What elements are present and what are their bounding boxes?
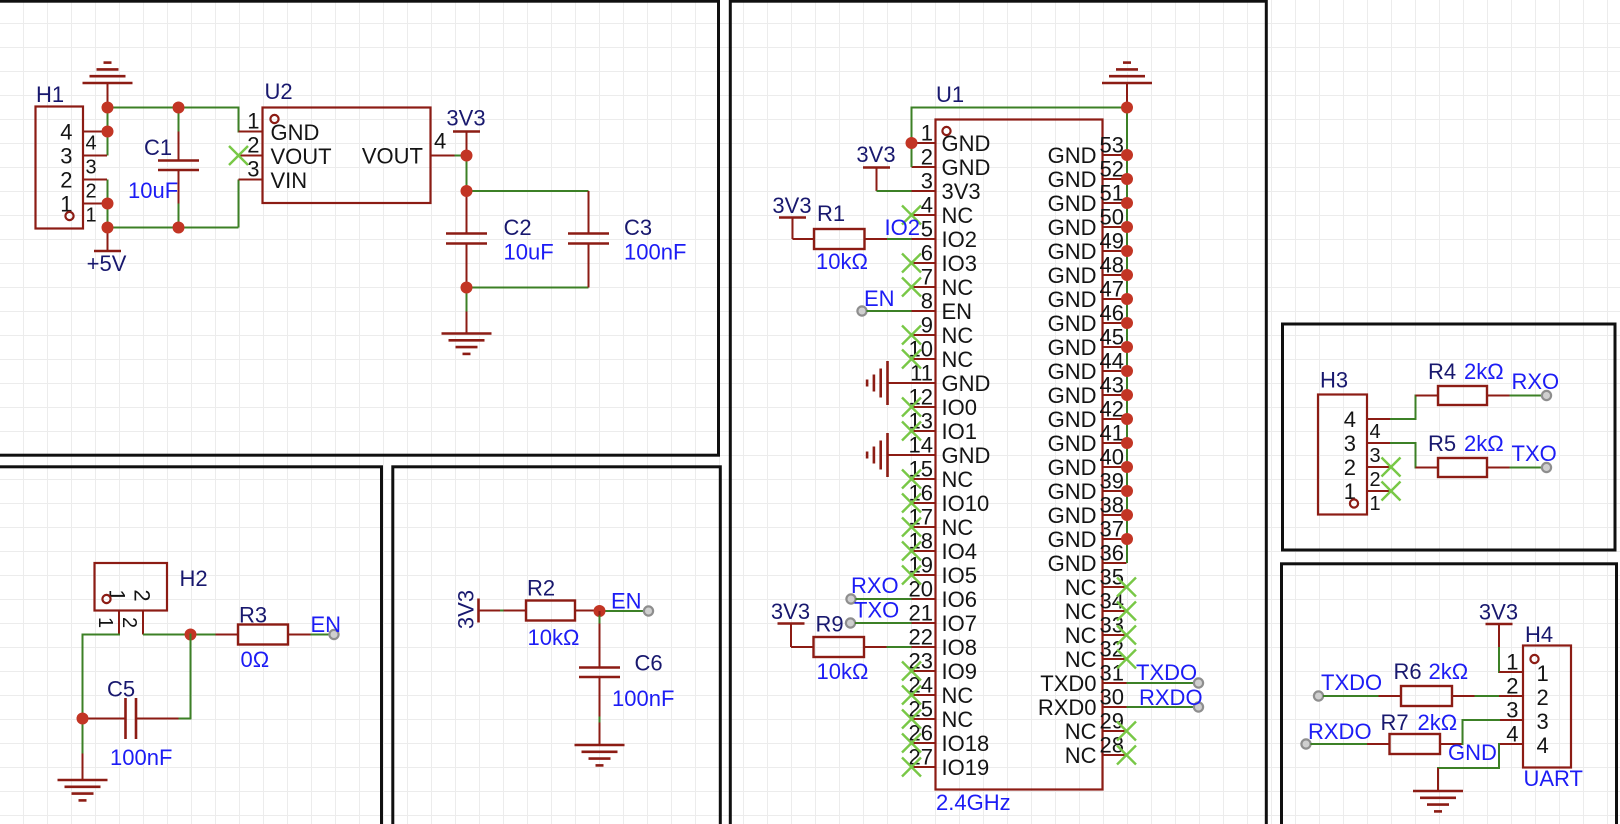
- svg-text:IO2: IO2: [942, 227, 977, 252]
- svg-text:U2: U2: [265, 79, 293, 104]
- svg-text:R1: R1: [817, 201, 845, 226]
- regulator U2: [239, 79, 455, 203]
- svg-text:0Ω: 0Ω: [241, 647, 270, 672]
- svg-text:52: 52: [1100, 157, 1124, 182]
- svg-text:3V3: 3V3: [856, 142, 895, 167]
- wire: [877, 190, 912, 192]
- ground (above U1 right): [1102, 63, 1152, 108]
- svg-text:3V3: 3V3: [772, 193, 811, 218]
- no-connect X pin 27: [902, 758, 921, 777]
- svg-text:35: 35: [1100, 565, 1124, 590]
- svg-text:2kΩ: 2kΩ: [1464, 431, 1504, 456]
- svg-text:4: 4: [1344, 407, 1356, 432]
- svg-text:IO19: IO19: [942, 755, 990, 780]
- svg-text:C6: C6: [635, 651, 663, 676]
- svg-text:GND: GND: [1048, 335, 1097, 360]
- no-connect X pin 2 of H3: [1382, 458, 1401, 477]
- svg-text:RXD0: RXD0: [1038, 695, 1097, 720]
- power flag +5V: [87, 228, 127, 277]
- svg-text:29: 29: [1100, 709, 1124, 734]
- no-connect X pin 9: [902, 326, 921, 345]
- svg-text:20: 20: [909, 577, 933, 602]
- net pin RXDO: [1301, 719, 1371, 749]
- svg-text:GND: GND: [1048, 311, 1097, 336]
- svg-text:4: 4: [1370, 421, 1381, 443]
- ground (above H1): [83, 63, 133, 108]
- svg-text:NC: NC: [1065, 575, 1097, 600]
- junction: [1121, 509, 1133, 521]
- svg-text:NC: NC: [942, 203, 974, 228]
- svg-text:4: 4: [86, 133, 97, 155]
- junction: [461, 150, 473, 162]
- no-connect X pin 4: [902, 206, 921, 225]
- wire: [1510, 467, 1543, 469]
- svg-text:UART: UART: [1524, 766, 1584, 791]
- wire: [855, 622, 912, 624]
- svg-text:3V3: 3V3: [1479, 600, 1518, 625]
- resistor R3: [216, 603, 311, 673]
- wire: [467, 190, 589, 192]
- svg-text:TXDO: TXDO: [1321, 670, 1382, 695]
- svg-text:GND: GND: [271, 120, 320, 145]
- wire: [1126, 108, 1128, 564]
- svg-text:IO6: IO6: [942, 587, 977, 612]
- svg-text:R3: R3: [239, 603, 267, 628]
- svg-text:2: 2: [86, 181, 97, 203]
- svg-text:GND: GND: [1048, 167, 1097, 192]
- svg-text:RXDO: RXDO: [1139, 685, 1203, 710]
- svg-text:TXD0: TXD0: [1040, 671, 1096, 696]
- svg-text:2: 2: [247, 133, 259, 158]
- svg-text:3: 3: [60, 144, 72, 169]
- no-connect X pin 17: [902, 518, 921, 537]
- svg-text:51: 51: [1100, 181, 1124, 206]
- svg-text:RXO: RXO: [1512, 369, 1560, 394]
- svg-text:46: 46: [1100, 301, 1124, 326]
- wire: [867, 310, 912, 312]
- net pin TXO: [1512, 441, 1557, 472]
- svg-text:GND: GND: [1048, 479, 1097, 504]
- svg-text:4: 4: [60, 120, 72, 145]
- capacitor C3: [568, 191, 686, 288]
- net pin EN: [311, 612, 342, 639]
- resistor R1: [793, 201, 888, 274]
- svg-text:39: 39: [1100, 469, 1124, 494]
- junction: [1121, 461, 1133, 473]
- svg-text:1: 1: [1537, 661, 1549, 686]
- svg-text:100nF: 100nF: [612, 686, 674, 711]
- svg-text:53: 53: [1100, 133, 1124, 158]
- svg-text:21: 21: [909, 601, 933, 626]
- svg-text:H2: H2: [180, 566, 208, 591]
- svg-text:IO9: IO9: [942, 659, 977, 684]
- ground (below C5): [58, 754, 108, 801]
- svg-text:GND: GND: [1048, 407, 1097, 432]
- svg-text:GND: GND: [942, 443, 991, 468]
- svg-text:GND: GND: [1048, 215, 1097, 240]
- svg-text:6: 6: [921, 241, 933, 266]
- svg-text:NC: NC: [1065, 743, 1097, 768]
- wire: [1475, 695, 1500, 697]
- svg-text:3V3: 3V3: [942, 179, 981, 204]
- svg-text:VIN: VIN: [271, 168, 308, 193]
- no-connect X pin 16: [902, 494, 921, 513]
- wire: [1391, 443, 1438, 468]
- net pin RXO: [1512, 369, 1560, 400]
- svg-text:EN: EN: [611, 589, 642, 614]
- resistor R2: [504, 576, 598, 651]
- sheet partition box C (EN pullup): [393, 467, 721, 824]
- svg-text:45: 45: [1100, 325, 1124, 350]
- svg-text:GND: GND: [1048, 239, 1097, 264]
- svg-text:2: 2: [1537, 685, 1549, 710]
- junction: [1121, 173, 1133, 185]
- junction: [102, 198, 114, 210]
- svg-text:10kΩ: 10kΩ: [528, 625, 580, 650]
- no-connect X pin 29: [1117, 722, 1136, 741]
- svg-text:RXDO: RXDO: [1308, 719, 1372, 744]
- capacitor C1: [128, 132, 199, 204]
- wire: [107, 108, 109, 156]
- svg-text:IO1: IO1: [942, 419, 977, 444]
- svg-text:H3: H3: [1320, 368, 1348, 393]
- svg-text:10uF: 10uF: [504, 240, 554, 265]
- resistor R4: [1416, 359, 1510, 405]
- no-connect X pin 19: [902, 566, 921, 585]
- ground (below H4): [1413, 768, 1463, 811]
- resistor R5: [1416, 431, 1510, 477]
- wire: [466, 288, 468, 312]
- junction: [173, 102, 185, 114]
- svg-text:R7: R7: [1381, 710, 1409, 735]
- svg-text:EN: EN: [942, 299, 973, 324]
- junction: [102, 102, 114, 114]
- svg-text:TXDO: TXDO: [1136, 660, 1197, 685]
- wire: [500, 610, 504, 612]
- no-connect X pin 24: [902, 686, 921, 705]
- junction: [77, 713, 89, 725]
- svg-text:10uF: 10uF: [128, 178, 178, 203]
- ground (pin 14, rotated): [867, 433, 911, 477]
- junction: [1121, 245, 1133, 257]
- wire: [179, 635, 191, 719]
- power flag 3V3 (rotated): [454, 590, 501, 629]
- svg-text:R6: R6: [1394, 659, 1422, 684]
- sheet partition box E (H3 RX/TX): [1283, 324, 1616, 550]
- no-connect X pin 15: [902, 470, 921, 489]
- svg-text:3: 3: [1537, 709, 1549, 734]
- IC U1 (2.4GHz module): [909, 82, 1127, 815]
- svg-text:44: 44: [1100, 349, 1124, 374]
- wire: [598, 610, 644, 612]
- junction: [461, 185, 473, 197]
- junction: [1121, 221, 1133, 233]
- svg-text:3V3: 3V3: [454, 590, 479, 629]
- svg-text:3V3: 3V3: [446, 106, 485, 131]
- svg-text:47: 47: [1100, 277, 1124, 302]
- junction: [1121, 365, 1133, 377]
- svg-text:NC: NC: [1065, 719, 1097, 744]
- svg-text:2: 2: [1370, 469, 1381, 491]
- svg-text:37: 37: [1100, 517, 1124, 542]
- junction: [173, 222, 185, 234]
- wire: [1311, 743, 1368, 745]
- svg-text:R4: R4: [1428, 359, 1456, 384]
- svg-text:3: 3: [921, 169, 933, 194]
- junction: [1121, 149, 1133, 161]
- svg-text:7: 7: [921, 265, 933, 290]
- svg-text:R2: R2: [527, 576, 555, 601]
- svg-text:+5V: +5V: [87, 251, 127, 276]
- svg-text:NC: NC: [942, 467, 974, 492]
- no-connect X pin 33: [1117, 626, 1136, 645]
- power flag 3V3 (VOUT): [446, 106, 485, 156]
- wire: [178, 204, 180, 228]
- svg-text:GND: GND: [1048, 551, 1097, 576]
- svg-text:36: 36: [1100, 541, 1124, 566]
- svg-text:1: 1: [1506, 650, 1518, 675]
- no-connect X pin 26: [902, 734, 921, 753]
- svg-text:NC: NC: [942, 707, 974, 732]
- svg-text:2: 2: [130, 589, 155, 601]
- svg-text:NC: NC: [942, 275, 974, 300]
- svg-text:2: 2: [1344, 455, 1356, 480]
- svg-text:NC: NC: [942, 683, 974, 708]
- power flag 3V3 (R1): [772, 193, 811, 239]
- wire: [1127, 682, 1195, 684]
- wire: [311, 634, 330, 636]
- svg-text:11: 11: [910, 361, 933, 386]
- svg-text:GND: GND: [1048, 359, 1097, 384]
- svg-text:100nF: 100nF: [624, 240, 686, 265]
- wire: [455, 155, 467, 157]
- junction: [1121, 485, 1133, 497]
- connector H1: [36, 82, 108, 229]
- no-connect X pin 7: [902, 278, 921, 297]
- svg-text:IO7: IO7: [942, 611, 977, 636]
- svg-text:IO18: IO18: [942, 731, 990, 756]
- net pin TXDO: [1136, 660, 1203, 688]
- svg-text:9: 9: [921, 313, 933, 338]
- svg-text:3: 3: [1370, 445, 1381, 467]
- svg-text:GND: GND: [942, 155, 991, 180]
- svg-text:GND: GND: [1048, 455, 1097, 480]
- junction: [1121, 293, 1133, 305]
- svg-text:VOUT: VOUT: [271, 144, 332, 169]
- svg-text:VOUT: VOUT: [362, 144, 423, 169]
- svg-text:IO4: IO4: [942, 539, 977, 564]
- ground (below C2): [442, 312, 492, 354]
- svg-text:NC: NC: [942, 323, 974, 348]
- junction: [906, 137, 918, 149]
- svg-text:IO8: IO8: [942, 635, 977, 660]
- svg-text:IO10: IO10: [942, 491, 990, 516]
- svg-text:4: 4: [434, 129, 446, 154]
- wire: [887, 238, 912, 240]
- wire: [887, 646, 912, 648]
- junction: [1121, 197, 1133, 209]
- wire: [1463, 720, 1500, 744]
- wire: [143, 634, 216, 636]
- svg-text:10kΩ: 10kΩ: [816, 249, 868, 274]
- no-connect X pin 25: [902, 710, 921, 729]
- svg-text:C1: C1: [144, 135, 172, 160]
- no-connect X pin 32: [1117, 650, 1136, 669]
- svg-text:4: 4: [921, 193, 933, 218]
- svg-text:3: 3: [86, 157, 97, 179]
- svg-text:38: 38: [1100, 493, 1124, 518]
- svg-text:1: 1: [247, 109, 259, 134]
- svg-text:NC: NC: [1065, 623, 1097, 648]
- wire: [178, 108, 180, 132]
- svg-text:R5: R5: [1428, 431, 1456, 456]
- svg-text:1: 1: [94, 617, 116, 628]
- svg-text:GND: GND: [1048, 383, 1097, 408]
- svg-text:GND: GND: [942, 371, 991, 396]
- svg-text:NC: NC: [1065, 599, 1097, 624]
- wire: [1438, 744, 1499, 768]
- net pin TXO: [846, 598, 899, 628]
- no-connect X pin 6: [902, 254, 921, 273]
- svg-text:H4: H4: [1525, 622, 1553, 647]
- svg-text:42: 42: [1100, 397, 1124, 422]
- net pin EN: [611, 589, 653, 616]
- svg-text:NC: NC: [1065, 647, 1097, 672]
- svg-text:GND: GND: [1048, 143, 1097, 168]
- svg-text:3: 3: [1344, 431, 1356, 456]
- connector H4: [1499, 622, 1583, 791]
- net pin TXDO: [1314, 670, 1382, 701]
- svg-text:3V3: 3V3: [771, 599, 810, 624]
- ground (below C6): [575, 745, 625, 765]
- svg-text:22: 22: [909, 625, 933, 650]
- svg-text:C2: C2: [504, 215, 532, 240]
- resistor R7: [1367, 710, 1463, 754]
- svg-text:8: 8: [921, 289, 933, 314]
- no-connect X pin 13: [902, 422, 921, 441]
- svg-text:2kΩ: 2kΩ: [1429, 659, 1469, 684]
- junction: [1121, 341, 1133, 353]
- svg-text:IO5: IO5: [942, 563, 977, 588]
- net label GND: [1448, 740, 1497, 765]
- resistor R9: [791, 612, 887, 685]
- no-connect X pin 34: [1117, 602, 1136, 621]
- junction: [461, 282, 473, 294]
- svg-text:2: 2: [118, 617, 140, 628]
- svg-text:2kΩ: 2kΩ: [1464, 359, 1504, 384]
- svg-text:EN: EN: [311, 612, 342, 637]
- no-connect X pin 28: [1117, 746, 1136, 765]
- svg-text:IO2: IO2: [885, 215, 920, 240]
- junction: [1121, 269, 1133, 281]
- wire: [82, 719, 84, 754]
- svg-text:14: 14: [909, 433, 933, 458]
- svg-text:1: 1: [921, 121, 933, 146]
- power flag 3V3 (H4): [1479, 600, 1518, 649]
- svg-text:EN: EN: [864, 286, 895, 311]
- wire: [83, 635, 120, 719]
- connector H3: [1318, 368, 1391, 516]
- wire: [238, 180, 240, 228]
- svg-text:2: 2: [60, 168, 72, 193]
- wire: [1498, 648, 1500, 672]
- wire: [1391, 396, 1438, 420]
- ground (pin 11, rotated): [867, 361, 911, 405]
- net pin RXDO: [1139, 685, 1203, 712]
- junction: [1121, 317, 1133, 329]
- svg-text:2: 2: [1506, 674, 1518, 699]
- wire: [1510, 395, 1543, 397]
- svg-text:U1: U1: [936, 82, 964, 107]
- junction: [102, 126, 114, 138]
- net pin RXO: [846, 573, 898, 604]
- no-connect X pin 12: [902, 398, 921, 417]
- wire: [467, 287, 589, 289]
- net label IO2: [885, 215, 920, 240]
- svg-text:100nF: 100nF: [110, 745, 172, 770]
- no-connect X pin 2 of U2: [229, 146, 248, 165]
- svg-text:TXO: TXO: [1512, 441, 1557, 466]
- junction: [1121, 437, 1133, 449]
- svg-text:GND: GND: [1048, 263, 1097, 288]
- svg-text:3: 3: [1506, 698, 1518, 723]
- svg-text:30: 30: [1100, 685, 1124, 710]
- svg-text:40: 40: [1100, 445, 1124, 470]
- svg-text:2kΩ: 2kΩ: [1418, 710, 1458, 735]
- wire: [108, 108, 239, 132]
- svg-text:4: 4: [1506, 722, 1518, 747]
- no-connect X pin 18: [902, 542, 921, 561]
- svg-text:RXO: RXO: [851, 573, 899, 598]
- wire: [107, 180, 109, 228]
- svg-text:41: 41: [1100, 421, 1124, 446]
- capacitor C5: [83, 677, 179, 771]
- svg-text:48: 48: [1100, 253, 1124, 278]
- resistor R6: [1379, 659, 1475, 706]
- wire: [856, 598, 912, 600]
- svg-text:GND: GND: [1048, 431, 1097, 456]
- no-connect X pin 23: [902, 662, 921, 681]
- sheet partition box F (H4 UART): [1282, 564, 1617, 824]
- wire: [466, 156, 468, 192]
- svg-text:TXO: TXO: [854, 598, 899, 623]
- sheet partition box D (module U1): [730, 1, 1266, 824]
- svg-text:49: 49: [1100, 229, 1124, 254]
- capacitor C6: [579, 611, 674, 745]
- svg-text:50: 50: [1100, 205, 1124, 230]
- svg-text:NC: NC: [942, 515, 974, 540]
- power flag 3V3 (pin 3): [856, 142, 895, 191]
- svg-text:10kΩ: 10kΩ: [817, 659, 869, 684]
- svg-text:2: 2: [921, 145, 933, 170]
- sheet partition box B (enable RC): [0, 467, 382, 824]
- svg-text:GND: GND: [1048, 287, 1097, 312]
- wire: [911, 108, 913, 168]
- wire: [108, 227, 239, 229]
- no-connect X pin 10: [902, 350, 921, 369]
- svg-text:5: 5: [921, 217, 933, 242]
- power flag 3V3 (R9): [771, 599, 810, 647]
- junction: [1121, 533, 1133, 545]
- sheet partition box A (power supply): [0, 1, 719, 455]
- svg-text:4: 4: [1537, 733, 1549, 758]
- svg-text:C3: C3: [624, 215, 652, 240]
- net pin EN: [857, 286, 894, 316]
- wire: [912, 107, 1128, 109]
- svg-text:IO3: IO3: [942, 251, 977, 276]
- svg-text:GND: GND: [1048, 503, 1097, 528]
- svg-text:43: 43: [1100, 373, 1124, 398]
